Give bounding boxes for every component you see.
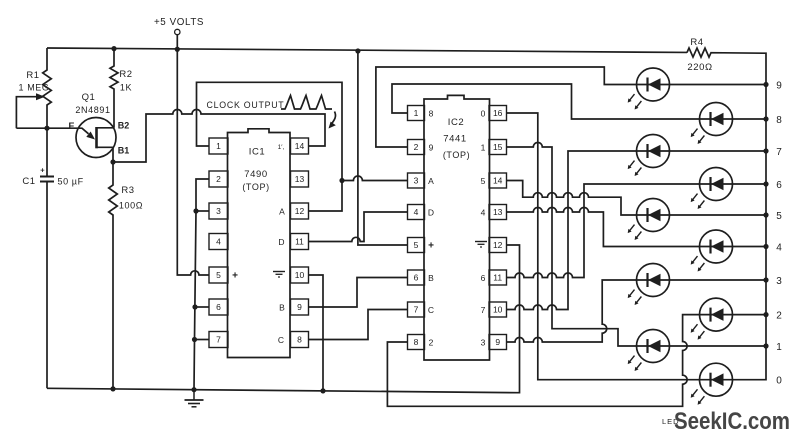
svg-text:R1: R1	[26, 70, 39, 81]
svg-text:100Ω: 100Ω	[119, 201, 143, 211]
wire IC2 pin 11 output 6 to LED6	[507, 184, 700, 278]
LED 0	[700, 363, 733, 396]
IC2 pin 15 box	[489, 140, 507, 155]
wire IC1 pin 7 stub	[195, 339, 210, 341]
LED 1	[637, 330, 670, 363]
wire IC2 pin 15 output 1 to LED1	[507, 143, 637, 347]
wire IC1 pin 6 stub	[195, 306, 209, 308]
svg-text:6: 6	[216, 302, 221, 312]
wire LED 3 anode to bus	[670, 279, 767, 281]
svg-text:+: +	[428, 240, 434, 251]
svg-text:16: 16	[493, 108, 503, 118]
svg-text:SeekIC.com: SeekIC.com	[674, 408, 790, 435]
wire LED 9 anode to bus	[670, 84, 767, 86]
node ground bus / R3	[110, 386, 115, 391]
transistor Q1 base bar	[95, 127, 98, 148]
wire IC1 pin 3 stub	[196, 210, 209, 212]
ground symbol	[193, 390, 195, 400]
svg-text:R2: R2	[119, 69, 132, 80]
IC2 pin 10 box	[489, 302, 507, 317]
svg-text:+: +	[232, 271, 238, 282]
capacitor C1 top lead	[46, 128, 48, 176]
svg-text:B2: B2	[118, 121, 130, 131]
IC1 pin 12 box	[291, 203, 309, 219]
IC1 pin 11 box	[291, 234, 309, 250]
wire LED 8 anode to bus	[733, 118, 767, 120]
svg-text:A: A	[279, 207, 285, 217]
wire clock B1 to IC1 pin 14	[113, 110, 325, 163]
svg-text:8: 8	[414, 337, 419, 347]
svg-text:E: E	[68, 121, 74, 131]
IC2 pin 4 box	[408, 205, 425, 220]
svg-text:IC2: IC2	[448, 117, 465, 128]
IC2 pin 6 box	[408, 270, 425, 285]
wire ground bus to IC2 pin 12	[47, 245, 520, 393]
node bus LED 5	[763, 212, 768, 217]
node ground bus / reset rail	[191, 387, 196, 392]
svg-text:7: 7	[216, 335, 221, 345]
node ground bus / IC1 pin 10	[320, 388, 325, 393]
IC2 pin 13 box	[489, 205, 507, 220]
IC1 pin 13 box	[291, 171, 309, 187]
IC1 pin 10 box	[291, 267, 309, 283]
LED 2	[700, 298, 733, 331]
transistor Q1 emitter lead with arrow	[16, 128, 88, 134]
svg-text:2N4891: 2N4891	[75, 105, 110, 115]
svg-text:C: C	[278, 335, 284, 345]
svg-text:2: 2	[414, 142, 419, 152]
svg-text:7: 7	[776, 147, 782, 158]
LED 9	[637, 68, 670, 101]
transistor Q1 circle	[76, 118, 116, 158]
wire IC1 pin 1 to QA loop	[197, 82, 343, 211]
wire +5V rail to IC1 pin 5	[177, 49, 209, 275]
wire IC1 pin 10 to ground bus	[309, 275, 324, 391]
svg-text:1′,: 1′,	[278, 144, 285, 151]
svg-text:Q1: Q1	[82, 92, 96, 103]
IC1 pin 4 box	[209, 234, 228, 250]
IC2 pin 2 box	[408, 140, 425, 155]
IC2 pin 3 box	[408, 173, 425, 188]
svg-text:C: C	[428, 305, 434, 315]
svg-text:9: 9	[776, 80, 782, 91]
node bus LED 9	[763, 82, 768, 87]
IC2 pin 11 box	[489, 270, 507, 285]
svg-text:14: 14	[295, 141, 305, 151]
IC1 pin 14 box	[291, 138, 309, 154]
svg-text:B1: B1	[118, 146, 130, 156]
LED 5	[637, 199, 670, 232]
LED 7	[637, 135, 670, 168]
IC1 internal ground symbol	[273, 271, 285, 273]
svg-text:B: B	[428, 273, 434, 283]
wire +5V top bus with right LED bus	[47, 48, 766, 380]
IC2 pin 7 box	[408, 302, 425, 317]
wire IC1 pin 9 QB to IC2 pin 6 B	[309, 278, 408, 308]
clock arrow curved	[331, 112, 336, 125]
svg-text:1K: 1K	[120, 83, 132, 93]
IC2 pin 16 box	[489, 106, 507, 121]
svg-text:5: 5	[776, 211, 782, 222]
svg-text:1: 1	[414, 108, 419, 118]
wire IC2 pin 8 output 2 to LED2	[387, 315, 699, 407]
wire IC1 pin 2 reset rail	[194, 179, 209, 390]
svg-text:220Ω: 220Ω	[687, 62, 712, 73]
svg-text:R3: R3	[121, 185, 134, 196]
svg-text:7: 7	[414, 305, 419, 315]
svg-text:6: 6	[481, 273, 486, 283]
svg-text:7: 7	[481, 305, 486, 315]
svg-text:8: 8	[297, 335, 302, 345]
IC1 pin 9 box	[291, 299, 309, 315]
svg-text:3: 3	[414, 176, 419, 186]
svg-text:13: 13	[295, 174, 305, 184]
IC2 pin 12 box	[489, 238, 507, 253]
wire IC2 pin 2 output 9 to LED9	[376, 67, 637, 147]
svg-text:1: 1	[776, 342, 782, 353]
LED 8	[700, 103, 733, 136]
IC IC1 7490 body	[228, 129, 291, 358]
node bus LED 8	[763, 116, 768, 121]
svg-text:R4: R4	[690, 37, 703, 48]
node bus LED 4	[763, 244, 768, 249]
wire IC1 pin 11 QD to IC2 pin 4 D	[309, 212, 408, 242]
svg-text:1: 1	[216, 141, 221, 151]
svg-text:8: 8	[429, 108, 434, 118]
IC1 pin 7 box	[209, 332, 228, 348]
capacitor C1 bottom lead	[46, 182, 48, 389]
svg-text:+5 VOLTS: +5 VOLTS	[154, 17, 204, 28]
wire IC2 pin 14 output 5 to LED5	[507, 181, 637, 216]
svg-text:9: 9	[429, 142, 434, 152]
svg-text:7441: 7441	[443, 134, 467, 145]
svg-text:(TOP): (TOP)	[242, 182, 269, 192]
wire top bus to R2 to Q1 B2	[110, 49, 118, 128]
svg-text:(TOP): (TOP)	[443, 150, 470, 160]
svg-text:11: 11	[295, 237, 304, 247]
node bus LED 3	[763, 277, 768, 282]
IC2 pin 8 box	[408, 335, 425, 350]
svg-text:8: 8	[776, 115, 782, 126]
wire IC2 pin 10 output 7 to LED7	[507, 151, 637, 310]
svg-text:5: 5	[216, 270, 221, 280]
wire LED 6 anode to bus	[733, 183, 767, 185]
node top bus / R2	[111, 46, 116, 51]
wire IC2 pin 5 Vcc rail	[358, 51, 408, 245]
node bus LED 1	[763, 343, 768, 348]
LED 3	[637, 264, 670, 297]
IC1 pin 6 box	[209, 299, 228, 315]
clock waveform sawtooth	[281, 96, 332, 110]
svg-text:10: 10	[295, 270, 305, 280]
svg-text:5: 5	[481, 176, 486, 186]
svg-text:D: D	[428, 207, 434, 217]
svg-text:9: 9	[495, 337, 500, 347]
wire LED 5 anode to bus	[670, 214, 767, 216]
wire top bus to R1	[43, 48, 52, 128]
svg-text:4: 4	[216, 237, 221, 247]
node B1 / R3 / clock	[110, 159, 115, 164]
transistor Q1 B2 lead	[97, 127, 115, 129]
IC2 pin 5 box	[408, 238, 425, 253]
svg-text:50 µF: 50 µF	[58, 177, 84, 187]
IC1 pin 5 box	[209, 267, 228, 283]
IC2 pin 9 box	[489, 335, 507, 350]
svg-text:4: 4	[481, 207, 486, 217]
wire LED 1 anode to bus	[670, 345, 767, 347]
node QA loop / IC2 A input	[339, 178, 344, 183]
wire QA to IC2 pin 3 A	[342, 176, 408, 181]
svg-text:2: 2	[216, 174, 221, 184]
IC1 pin 3 box	[209, 203, 228, 219]
svg-text:6: 6	[414, 273, 419, 283]
wire IC2 pin 13 output 4 to LED4	[507, 208, 700, 247]
LED 6	[700, 168, 733, 201]
svg-text:3: 3	[776, 276, 782, 287]
node emitter / R1 / C1	[44, 126, 49, 131]
wire IC2 pin 9 output 3 to LED3	[507, 280, 637, 342]
IC2 pin 1 box	[408, 106, 425, 121]
IC1 pin 8 box	[291, 332, 309, 348]
svg-text:0: 0	[481, 108, 486, 118]
IC2 pin 14 box	[489, 173, 507, 188]
transistor Q1 B1 lead	[97, 147, 114, 162]
capacitor C1 plates	[40, 176, 54, 178]
wire IC2 pin 16 output 0 to LED0	[507, 113, 700, 380]
R1 wiper arrow wire	[16, 97, 38, 129]
svg-text:CLOCK OUTPUT: CLOCK OUTPUT	[207, 100, 285, 110]
svg-text:9: 9	[297, 302, 302, 312]
svg-text:12: 12	[493, 240, 503, 250]
IC1 pin 1 box	[209, 138, 228, 154]
svg-text:6: 6	[776, 180, 782, 191]
LED 4	[700, 230, 733, 263]
node reset rail / pin 6	[192, 304, 197, 309]
svg-text:14: 14	[493, 176, 503, 186]
node reset rail / pin 3	[193, 208, 198, 213]
svg-text:C1: C1	[22, 176, 35, 187]
IC2 internal ground symbol	[475, 241, 487, 243]
node top bus / +5V terminal	[175, 47, 180, 52]
IC1 pin 2 box	[209, 171, 228, 187]
svg-text:11: 11	[493, 273, 502, 283]
svg-text:B: B	[279, 303, 285, 313]
svg-text:10: 10	[493, 305, 503, 315]
wire LED 2 anode to bus	[733, 314, 767, 316]
svg-text:A: A	[428, 176, 434, 186]
node top bus / IC2 Vcc rail	[355, 48, 360, 53]
svg-text:D: D	[278, 237, 284, 247]
svg-text:1: 1	[481, 142, 486, 152]
svg-text:2: 2	[776, 310, 782, 321]
wire IC2 pin 1 output 8 to LED8	[392, 84, 700, 119]
svg-text:3: 3	[481, 337, 486, 347]
svg-text:13: 13	[493, 207, 503, 217]
svg-text:12: 12	[295, 206, 305, 216]
node bus LED 6	[763, 181, 768, 186]
svg-text:4: 4	[414, 207, 419, 217]
svg-text:+: +	[40, 166, 45, 175]
svg-text:3: 3	[216, 206, 221, 216]
svg-text:4: 4	[776, 242, 782, 253]
wire LED 7 anode to bus	[670, 150, 767, 152]
svg-text:5: 5	[414, 240, 419, 250]
node bus LED 2	[763, 312, 768, 317]
node reset rail / pin 7	[192, 337, 197, 342]
node bus LED 7	[763, 148, 768, 153]
IC IC2 7441 body	[424, 95, 490, 360]
svg-text:IC1: IC1	[249, 147, 266, 158]
wire LED 4 anode to bus	[733, 246, 767, 248]
+5 VOLTS supply terminal	[175, 29, 180, 34]
svg-text:15: 15	[493, 142, 503, 152]
resistor R3	[109, 162, 118, 389]
svg-text:1 MEG: 1 MEG	[18, 83, 49, 93]
svg-text:7490: 7490	[244, 169, 268, 180]
wire IC1 pin 8 QC to IC2 pin 7 C	[309, 310, 408, 340]
svg-text:0: 0	[776, 376, 782, 387]
svg-text:2: 2	[429, 337, 434, 347]
